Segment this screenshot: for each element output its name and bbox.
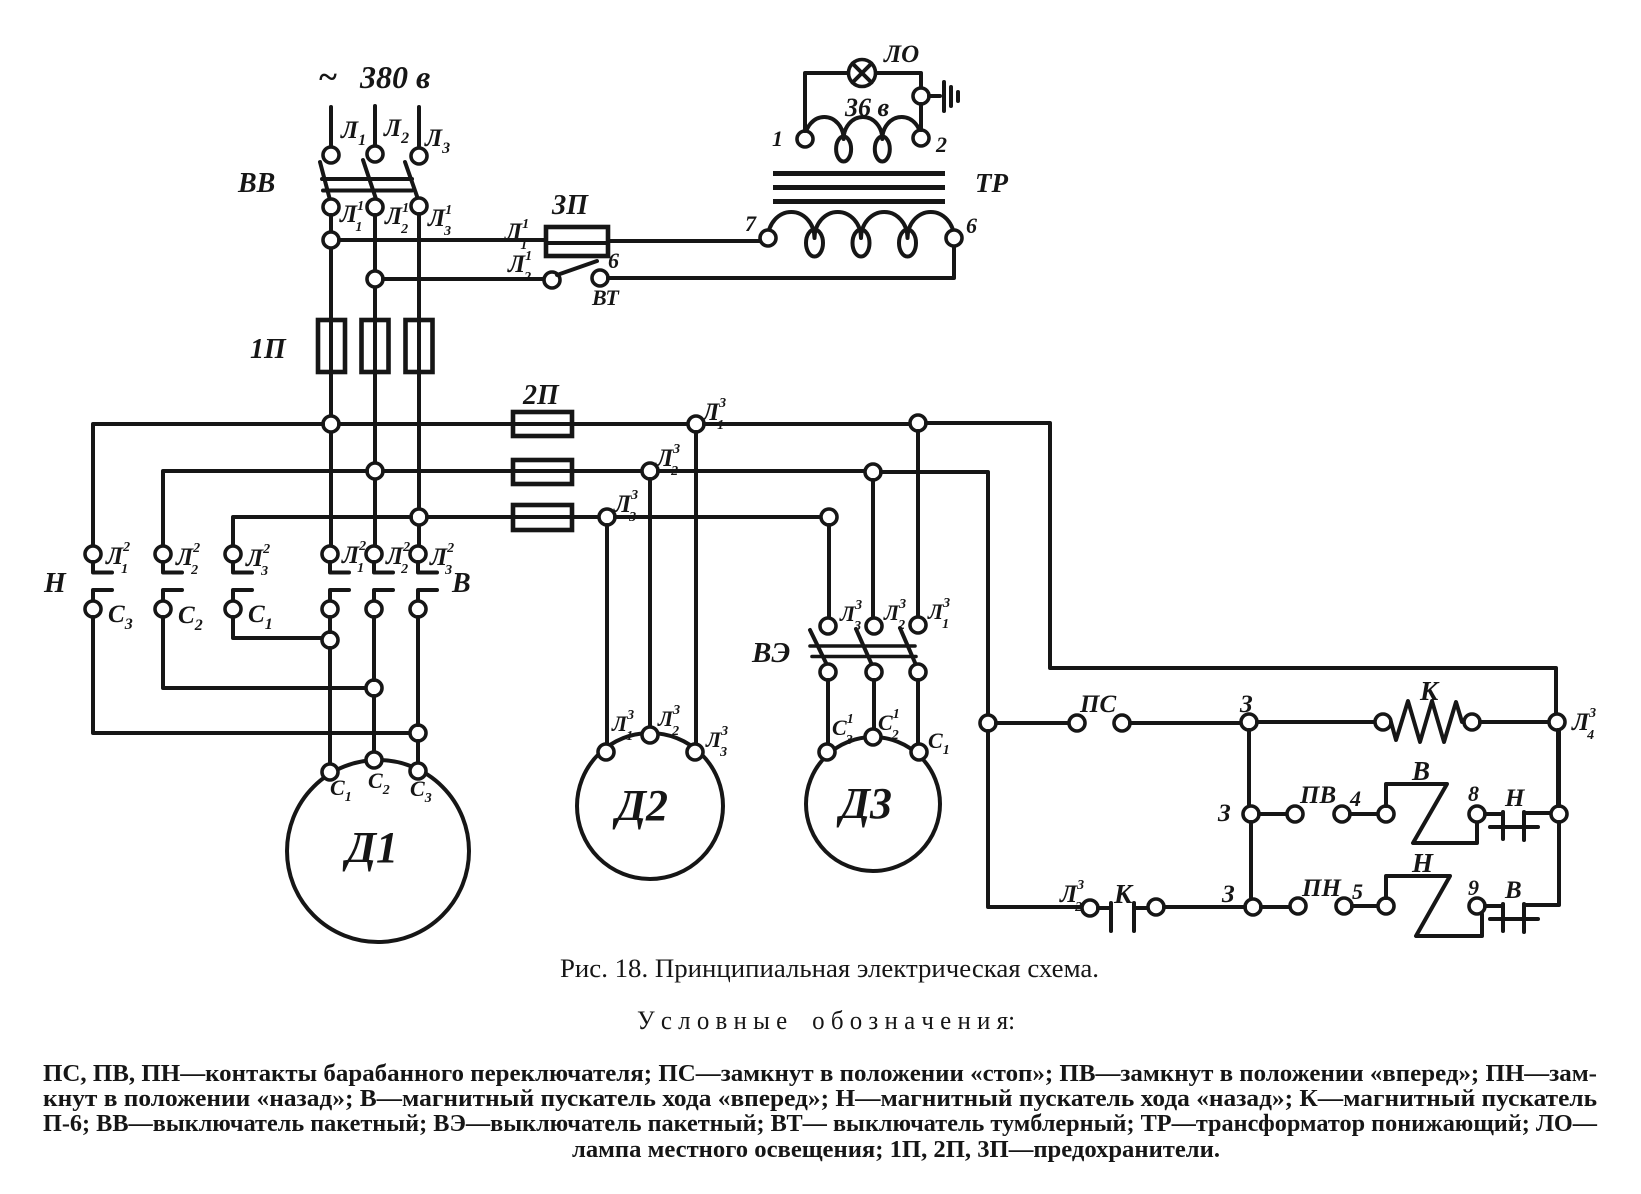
node junction L2 to BT branch [367,271,383,287]
wire bus3 left [233,517,411,547]
wire right rail [1524,730,1559,905]
svg-text:2П: 2П [522,380,560,411]
wire phase L2 incoming [373,106,377,146]
wire bus1 to control corner [926,423,1556,714]
svg-text:Д1: Д1 [342,823,398,872]
node Л3' [411,198,452,239]
contact В normally-closed [1485,877,1538,932]
wire 3 to ПН [1261,905,1290,909]
svg-text:В: В [451,568,471,599]
wire VE to D3 col2 [872,680,876,729]
svg-text:ПН: ПН [1301,875,1342,902]
wire VE feed col3 [916,431,920,617]
motor Д2 [577,703,728,879]
svg-text:В: В [1411,756,1430,786]
contact ПВ [1287,782,1361,822]
wire D2 feed col2 [648,479,652,727]
coil Н reverse contactor [1378,848,1485,936]
svg-text:380 в: 380 в [359,59,430,95]
coil В forward contactor [1378,756,1485,843]
node junction right rail middle [1551,806,1567,822]
coil К [1375,676,1480,742]
wire B col1 down to motor D1 [328,617,332,764]
wire C3 link [93,617,410,733]
svg-text:В: В [1504,877,1522,904]
svg-text:З: З [1239,691,1253,718]
contact H2 Л2-2/С2 [155,541,203,634]
node junction ground tap [913,88,929,104]
svg-text:8: 8 [1468,781,1479,806]
contact Н normally-closed [1485,785,1551,840]
svg-text:З: З [1221,881,1235,908]
wire bus3 down to VE [827,525,831,618]
wire ground tap to pin 2 [919,104,923,130]
wire K coil to node Л4-3 [1480,720,1549,724]
svg-text:У с л о в н ы е о б о з н а: У с л о в н ы е о б о з н а ч е н и я: [637,1006,1015,1035]
wire D2 feed col3 [694,432,698,744]
node corner bus3 [821,509,837,525]
svg-text:ВТ: ВТ [591,285,620,310]
svg-text:ЛО: ЛО [883,41,919,68]
wire control feed down [988,731,1082,907]
node Л2' [367,199,409,237]
wire BT branch left [383,277,544,281]
svg-text:кнут в положении «назад»; В—ма: кнут в положении «назад»; В—магнитный пу… [43,1086,1597,1112]
svg-text:1: 1 [772,126,783,151]
wire bus3 right to fuse 2P [427,515,599,519]
svg-text:З: З [1217,800,1231,827]
svg-text:ПС, ПВ, ПН—контакты барабанног: ПС, ПВ, ПН—контакты барабанного переключ… [43,1061,1597,1087]
wire ПН to coil Н [1352,904,1378,908]
svg-text:Д2: Д2 [612,781,668,830]
node Л1' [323,199,363,235]
wire bus1 left [93,424,323,547]
node Л2 [367,115,409,162]
svg-text:ПВ: ПВ [1299,782,1336,809]
lamp ЛО [849,41,920,87]
wire C1 link [233,617,322,638]
contact B2 Л2-2 [366,540,410,617]
svg-text:ВЭ: ВЭ [751,637,790,669]
svg-text:К: К [1419,676,1440,706]
node Л1 [323,117,366,163]
node junction L1 to ZP branch [323,232,339,248]
node junction bus1 on phase L1 [323,416,339,432]
wire Л4-3 down to junction [1556,730,1560,806]
fuse ЗП [546,190,608,256]
svg-text:5: 5 [1352,879,1363,904]
wire D2 feed col1 [605,525,609,744]
fuse 2П-3 [513,505,572,530]
wire phase L2 below fuse [373,372,377,546]
secondary winding pins 1-2 [805,117,921,139]
contact ПН [1290,875,1363,914]
wire З vertical upper [1247,730,1251,806]
node junction Л1-3 bus1 [688,396,726,433]
svg-text:К: К [1113,879,1134,909]
node junction control feed PS [980,715,996,731]
svg-text:Н: Н [1504,785,1526,812]
svg-text:~: ~ [318,59,337,96]
wire lamp loop right [876,73,921,88]
node junction C3 on B col3 [410,725,426,741]
contact ПС [1069,691,1130,731]
wire bus2 corner down control feed [881,472,988,715]
node З bottom junction [1221,881,1261,915]
transformer ТР [745,93,1008,257]
wire VE feed col2 [871,480,875,618]
wire phase L3 below fuse [417,372,421,546]
wire phase L2 to fuse 1P [373,215,377,320]
wire phase L1 below fuse [329,372,333,546]
switch ВТ toggle [544,248,620,310]
node junction C2 on B col2 [366,680,382,696]
svg-text:Д3: Д3 [836,779,892,828]
node junction bus3 on phase L3 [411,509,427,525]
node З middle junction [1217,800,1259,827]
wire PS lead [996,721,1069,725]
wire phase L1 to fuse 1P [329,215,333,320]
wire bus3 to VE col1 [615,515,821,519]
wire 3 to K coil [1257,720,1375,724]
wire ZP to transformer pin 7 [608,239,760,243]
wire bus1 to right side [704,422,910,426]
wire bus2 left [163,471,367,547]
wire З vertical lower [1249,822,1253,899]
wire ПВ to coil В [1350,812,1378,816]
node junction bus1 to VE col3 [910,415,926,431]
svg-text:Н: Н [1411,848,1434,878]
wire K contact to node 3 [1164,905,1245,909]
switch BB packet switch [237,160,419,202]
wire PS to node 3 [1130,721,1241,725]
wire phase L1 incoming [329,107,333,147]
contact H3 Л3-2/С1 [225,542,273,633]
contact К normally-open [1098,879,1164,931]
wire BT to transformer pin 6 [608,246,954,278]
svg-text:1П: 1П [250,334,287,365]
svg-text:ВВ: ВВ [237,168,275,199]
ground [929,82,958,111]
node Л4-3 [1549,706,1596,743]
node junction bus2 on phase L2 [367,463,383,479]
wire З middle stub [1259,812,1287,816]
wire VE to D3 col1 [826,680,830,744]
fuse 2П-1 [513,412,572,436]
core [773,171,945,176]
node junction bus2 corner to control [865,464,881,480]
contact B3 Л3-2 [410,541,454,617]
switch ВЭ packet switch [751,596,950,680]
node З top junction [1239,691,1257,730]
wire bus2 to VE col2 [658,469,865,473]
wire lamp loop left [805,73,848,131]
svg-text:6: 6 [608,248,619,273]
svg-text:9: 9 [1468,875,1479,900]
svg-text:ЗП: ЗП [551,190,589,221]
motor Д3 [806,707,950,871]
node supply ~380 V label [318,59,430,96]
wire B col3 down to motor D1 [416,617,420,763]
primary winding pins 7-6 [768,212,954,238]
wire ZP branch [339,238,546,242]
svg-text:ТР: ТР [975,168,1008,198]
wire bus2 right to fuse 2P [383,469,642,473]
node junction C1 on B col1 [322,632,338,648]
node junction Л2-3 bus2 [642,442,680,479]
svg-text:4: 4 [1349,786,1361,811]
fuse 1П group [250,320,433,372]
wire C2 link [163,617,366,688]
svg-text:Н: Н [43,568,67,599]
wire B col2 down to motor D1 [372,617,376,752]
svg-text:лампа местного освещения; 1П,: лампа местного освещения; 1П, 2П, 3П—пре… [572,1137,1220,1163]
node Л2-3 control bottom tap [1059,878,1098,916]
svg-text:36 в: 36 в [844,93,890,122]
wire phase L3 incoming [417,107,421,148]
wire phase L3 to fuse 1P [417,214,421,320]
svg-text:6: 6 [966,213,977,238]
node Л3 [411,125,450,164]
svg-text:П-6; ВВ—выключатель пакетный;: П-6; ВВ—выключатель пакетный; ВЭ—выключа… [43,1111,1598,1137]
contact B1 Л1-2 [322,539,366,617]
svg-text:7: 7 [745,211,757,236]
motor Д1 [287,752,469,942]
wire VE to D3 col3 [916,680,920,744]
svg-text:Рис. 18. Принципиальная эле: Рис. 18. Принципиальная электрическая сх… [560,954,1099,983]
node junction Л3-3 bus3 [599,488,638,525]
svg-text:2: 2 [935,132,947,157]
fuse 2П-2 [513,460,572,484]
svg-text:ПС: ПС [1079,691,1116,718]
contact H1 Л1-2/С3 [85,540,133,633]
wire bus1 right to fuse 2P [339,422,688,426]
